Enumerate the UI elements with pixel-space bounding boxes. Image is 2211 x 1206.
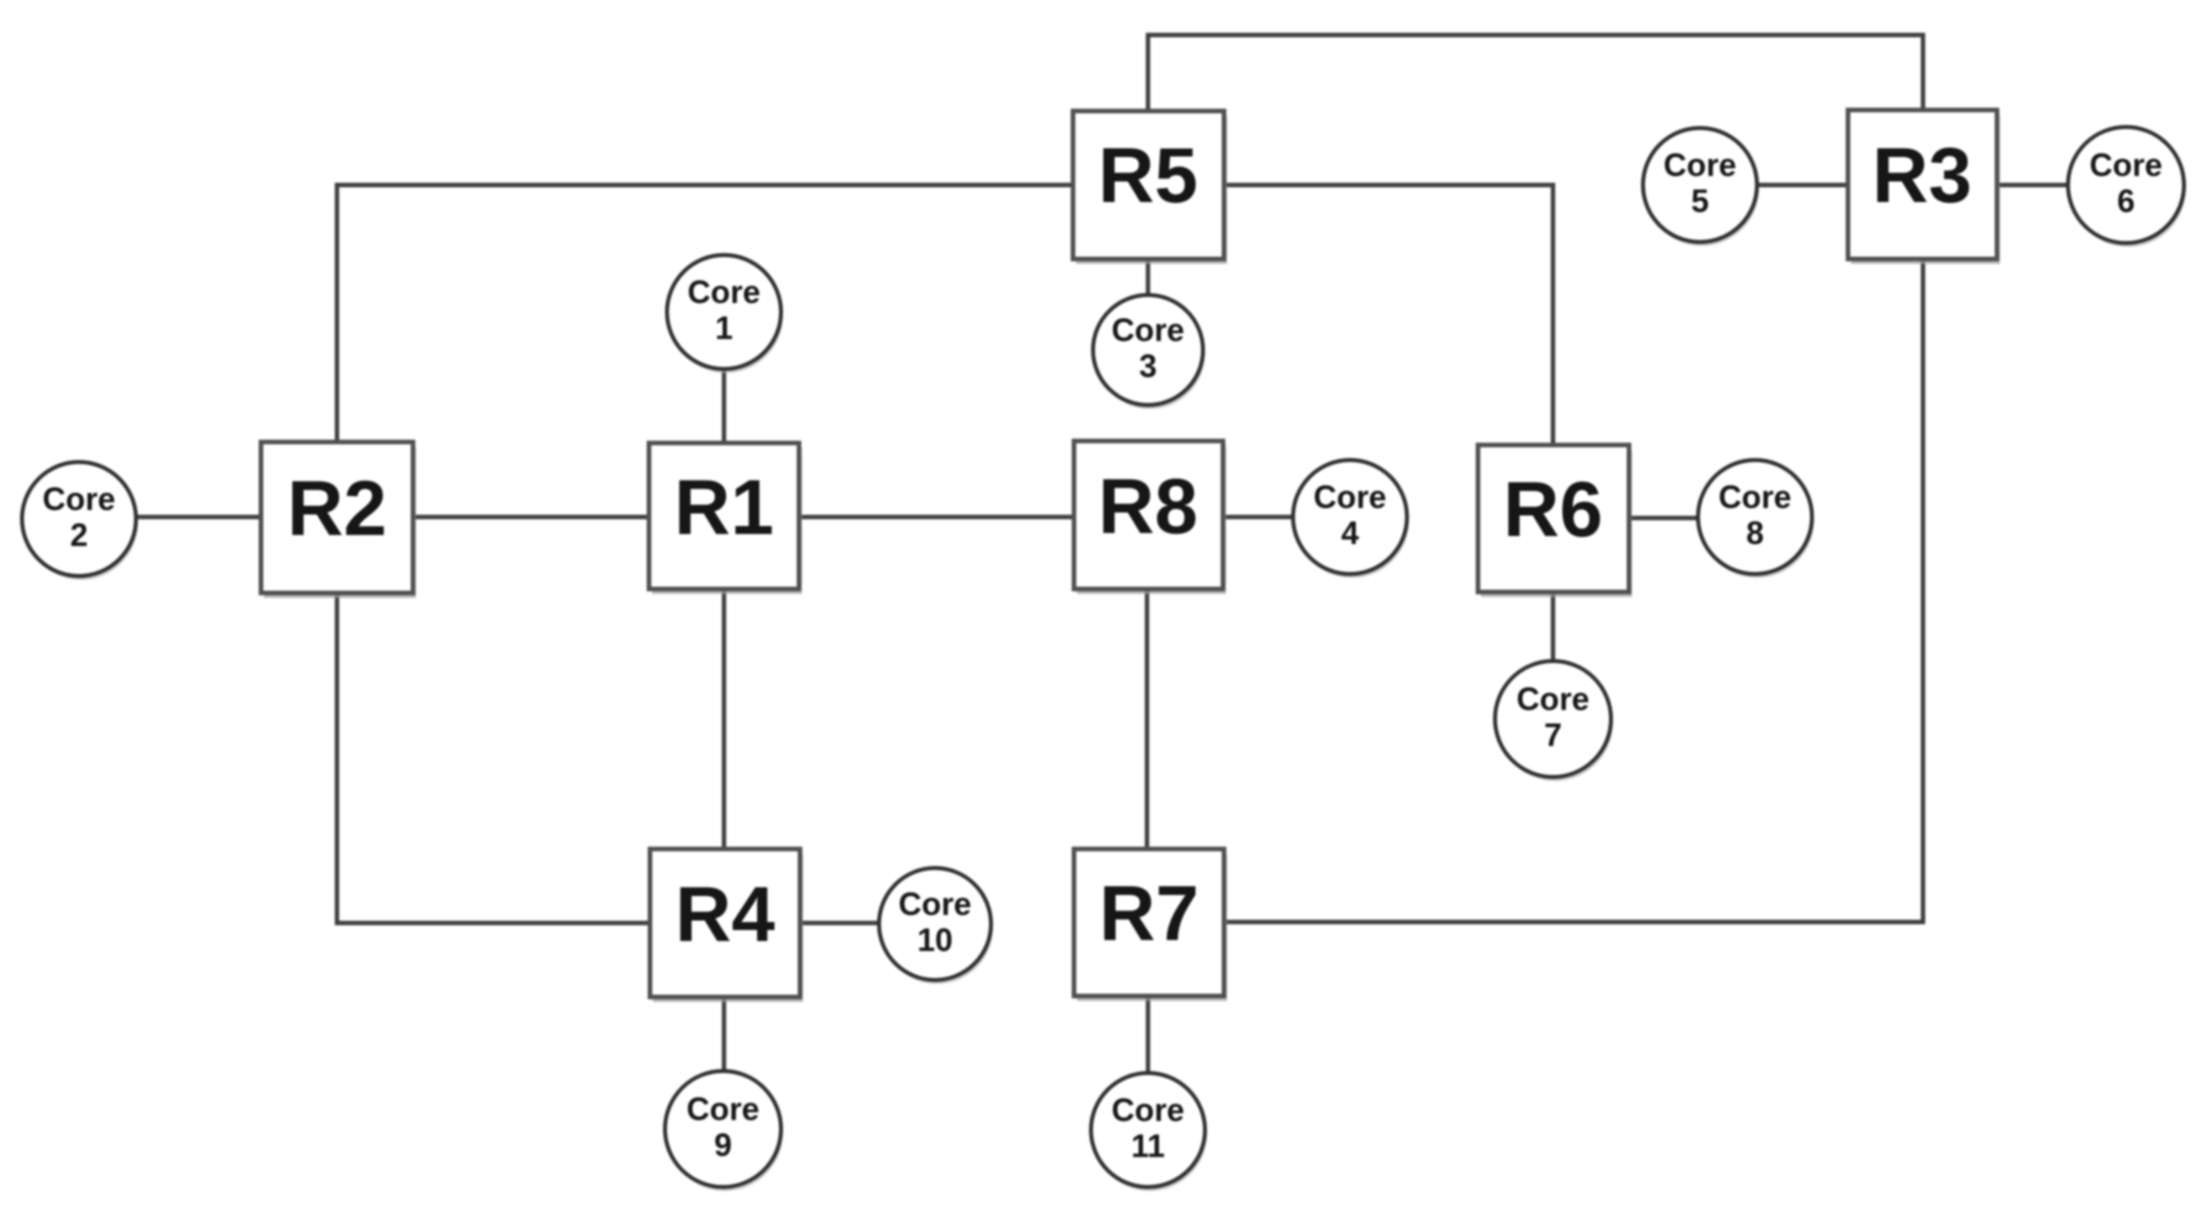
svg-text:R6: R6	[1503, 465, 1603, 553]
svg-text:R4: R4	[675, 870, 775, 958]
svg-text:R3: R3	[1872, 131, 1972, 219]
svg-text:R5: R5	[1098, 131, 1198, 219]
svg-text:Core: Core	[1112, 1092, 1185, 1128]
svg-text:R2: R2	[287, 464, 387, 552]
svg-text:Core: Core	[43, 481, 116, 517]
svg-text:Core: Core	[688, 274, 761, 310]
svg-text:7: 7	[1544, 717, 1562, 753]
svg-text:R7: R7	[1099, 869, 1199, 957]
svg-text:R8: R8	[1098, 462, 1198, 550]
svg-text:Core: Core	[1314, 479, 1387, 515]
svg-text:10: 10	[917, 922, 953, 958]
svg-text:Core: Core	[2090, 147, 2163, 183]
svg-text:Core: Core	[1664, 147, 1737, 183]
svg-text:1: 1	[715, 310, 733, 346]
svg-text:Core: Core	[687, 1091, 760, 1127]
svg-text:Core: Core	[1517, 681, 1590, 717]
svg-text:2: 2	[70, 517, 88, 553]
svg-text:11: 11	[1131, 1128, 1165, 1164]
svg-text:Core: Core	[1112, 312, 1185, 348]
svg-text:6: 6	[2117, 183, 2135, 219]
svg-text:R1: R1	[674, 463, 774, 551]
svg-text:3: 3	[1139, 348, 1157, 384]
svg-text:Core: Core	[1719, 479, 1792, 515]
svg-text:5: 5	[1691, 183, 1709, 219]
svg-text:9: 9	[714, 1127, 732, 1163]
svg-text:4: 4	[1341, 515, 1359, 551]
svg-text:8: 8	[1746, 515, 1764, 551]
svg-text:Core: Core	[899, 886, 972, 922]
